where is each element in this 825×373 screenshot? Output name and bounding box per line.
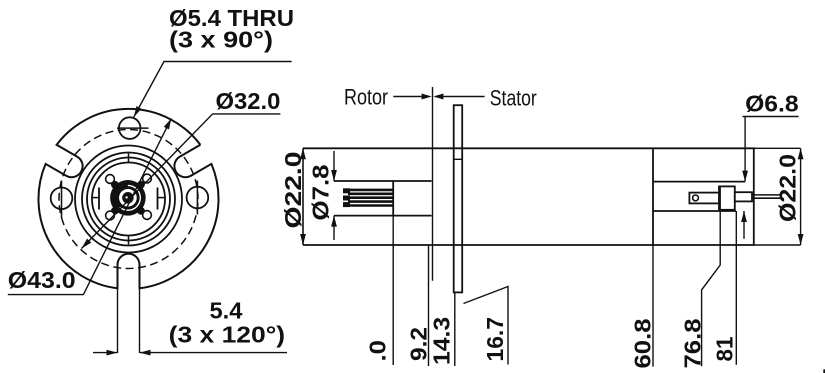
rotor shaft bottom line [334, 215, 432, 217]
svg-text:81: 81 [711, 336, 737, 361]
left flat [98, 188, 100, 210]
svg-text:76.8: 76.8 [679, 318, 705, 368]
slot extension line right [139, 267, 141, 353]
ext line 81 [735, 211, 737, 365]
screw S4 [143, 211, 152, 220]
pin stripe 1 [348, 189, 393, 192]
ext line .0 [392, 216, 394, 365]
leader Ø32 [82, 114, 281, 249]
stator housing circle 1 [75, 146, 182, 253]
rotor shaft step face [392, 181, 394, 216]
stator housing circle 2 [82, 153, 175, 246]
svg-text:(3 x 120°): (3 x 120°) [169, 322, 285, 348]
bearing block [719, 186, 735, 209]
cavity top line [653, 181, 745, 183]
svg-text:Ø7.8: Ø7.8 [308, 164, 334, 220]
gear pin hole [693, 195, 699, 201]
dim 5.4 left [93, 352, 117, 354]
svg-text:Ø6.8: Ø6.8 [745, 90, 799, 116]
slot extension line left [117, 267, 119, 353]
body bottom extension [755, 244, 801, 246]
hole H3 right (Ø5.4) [187, 187, 209, 209]
pin lug 1 [343, 188, 350, 193]
dim Ø7.8 bottom arrow [333, 216, 335, 240]
svg-text:5.4: 5.4 [210, 297, 243, 323]
stator housing circle 3 [87, 158, 170, 241]
centermark tick right [157, 197, 166, 199]
leader Ø5.4 [134, 62, 292, 118]
stator arrow [435, 96, 484, 98]
pin lug 3 [343, 202, 350, 207]
output shaft bottom [752, 197, 781, 199]
dim 5.4 right [140, 352, 287, 354]
rotor shaft top line [334, 180, 432, 182]
pin stripe 5 [348, 204, 393, 207]
body top extension [755, 147, 801, 149]
hole H1 centerline [117, 127, 149, 129]
svg-text:16.7: 16.7 [482, 317, 508, 362]
body top edge [303, 147, 755, 149]
gear bar [689, 193, 719, 204]
ext line 60.8 [652, 245, 654, 367]
stator housing circle 4 [92, 163, 165, 236]
ext line 76.8 [702, 186, 721, 366]
bearing hub [110, 180, 146, 216]
ext line 9.2 [428, 245, 430, 366]
centermark tick left [91, 197, 100, 199]
svg-text:Ø43.0: Ø43.0 [8, 267, 76, 293]
screw S2 [143, 174, 152, 183]
rotor-stator boundary line [432, 87, 434, 281]
pin lug 2 [343, 196, 350, 201]
hole H2 left (Ø5.4) [51, 188, 73, 210]
screw S1 [106, 175, 115, 184]
rotor body left edge / dim line Ø22 [302, 148, 304, 245]
dim Ø6.8 bottom arrow [743, 211, 745, 239]
ext line 14.3 [454, 292, 456, 366]
bolt circle (dashed, Ø32) [59, 130, 198, 269]
svg-text:Stator: Stator [490, 86, 537, 111]
svg-text:.0: .0 [365, 340, 391, 362]
pin stripe 3 [348, 196, 393, 199]
centermark tick top [128, 154, 130, 163]
output collar [735, 192, 752, 201]
leader Ø43 [8, 118, 172, 294]
flange outline with 3 slots (front view) [38, 109, 218, 288]
screw S3 [106, 211, 115, 220]
svg-text:Ø22.0: Ø22.0 [775, 154, 801, 222]
body right edge [753, 148, 755, 245]
body bottom edge [303, 244, 755, 246]
hole H3 centerline [196, 181, 198, 215]
output shaft end [780, 195, 782, 198]
svg-text:60.8: 60.8 [630, 318, 656, 368]
hole H1 top (Ø5.4) [119, 117, 141, 139]
svg-text:Ø32.0: Ø32.0 [216, 88, 281, 114]
svg-text:14.3: 14.3 [429, 317, 455, 365]
hole H2 centerline [61, 181, 63, 218]
svg-text:Rotor: Rotor [344, 84, 388, 109]
corner artifact mark [823, 369, 825, 373]
dim Ø7.8 top arrow [333, 151, 335, 181]
stator mounting plate [454, 105, 463, 292]
plate slot tick [454, 158, 463, 160]
rotor arrow [393, 96, 429, 98]
svg-text:Ø22.0: Ø22.0 [280, 152, 306, 229]
centermark tick bottom [128, 236, 130, 245]
output shaft top [752, 194, 781, 196]
pin stripe 2 [348, 193, 393, 196]
leader 16.7 [464, 287, 509, 365]
svg-text:(3 x 90°): (3 x 90°) [169, 27, 273, 53]
pin stripe 4 [348, 200, 393, 203]
end cap boundary [652, 148, 654, 245]
dim Ø22 right line [800, 148, 802, 245]
right flat [157, 188, 159, 210]
dim Ø6.8 leader [743, 116, 799, 118]
cavity bottom line [653, 210, 736, 212]
